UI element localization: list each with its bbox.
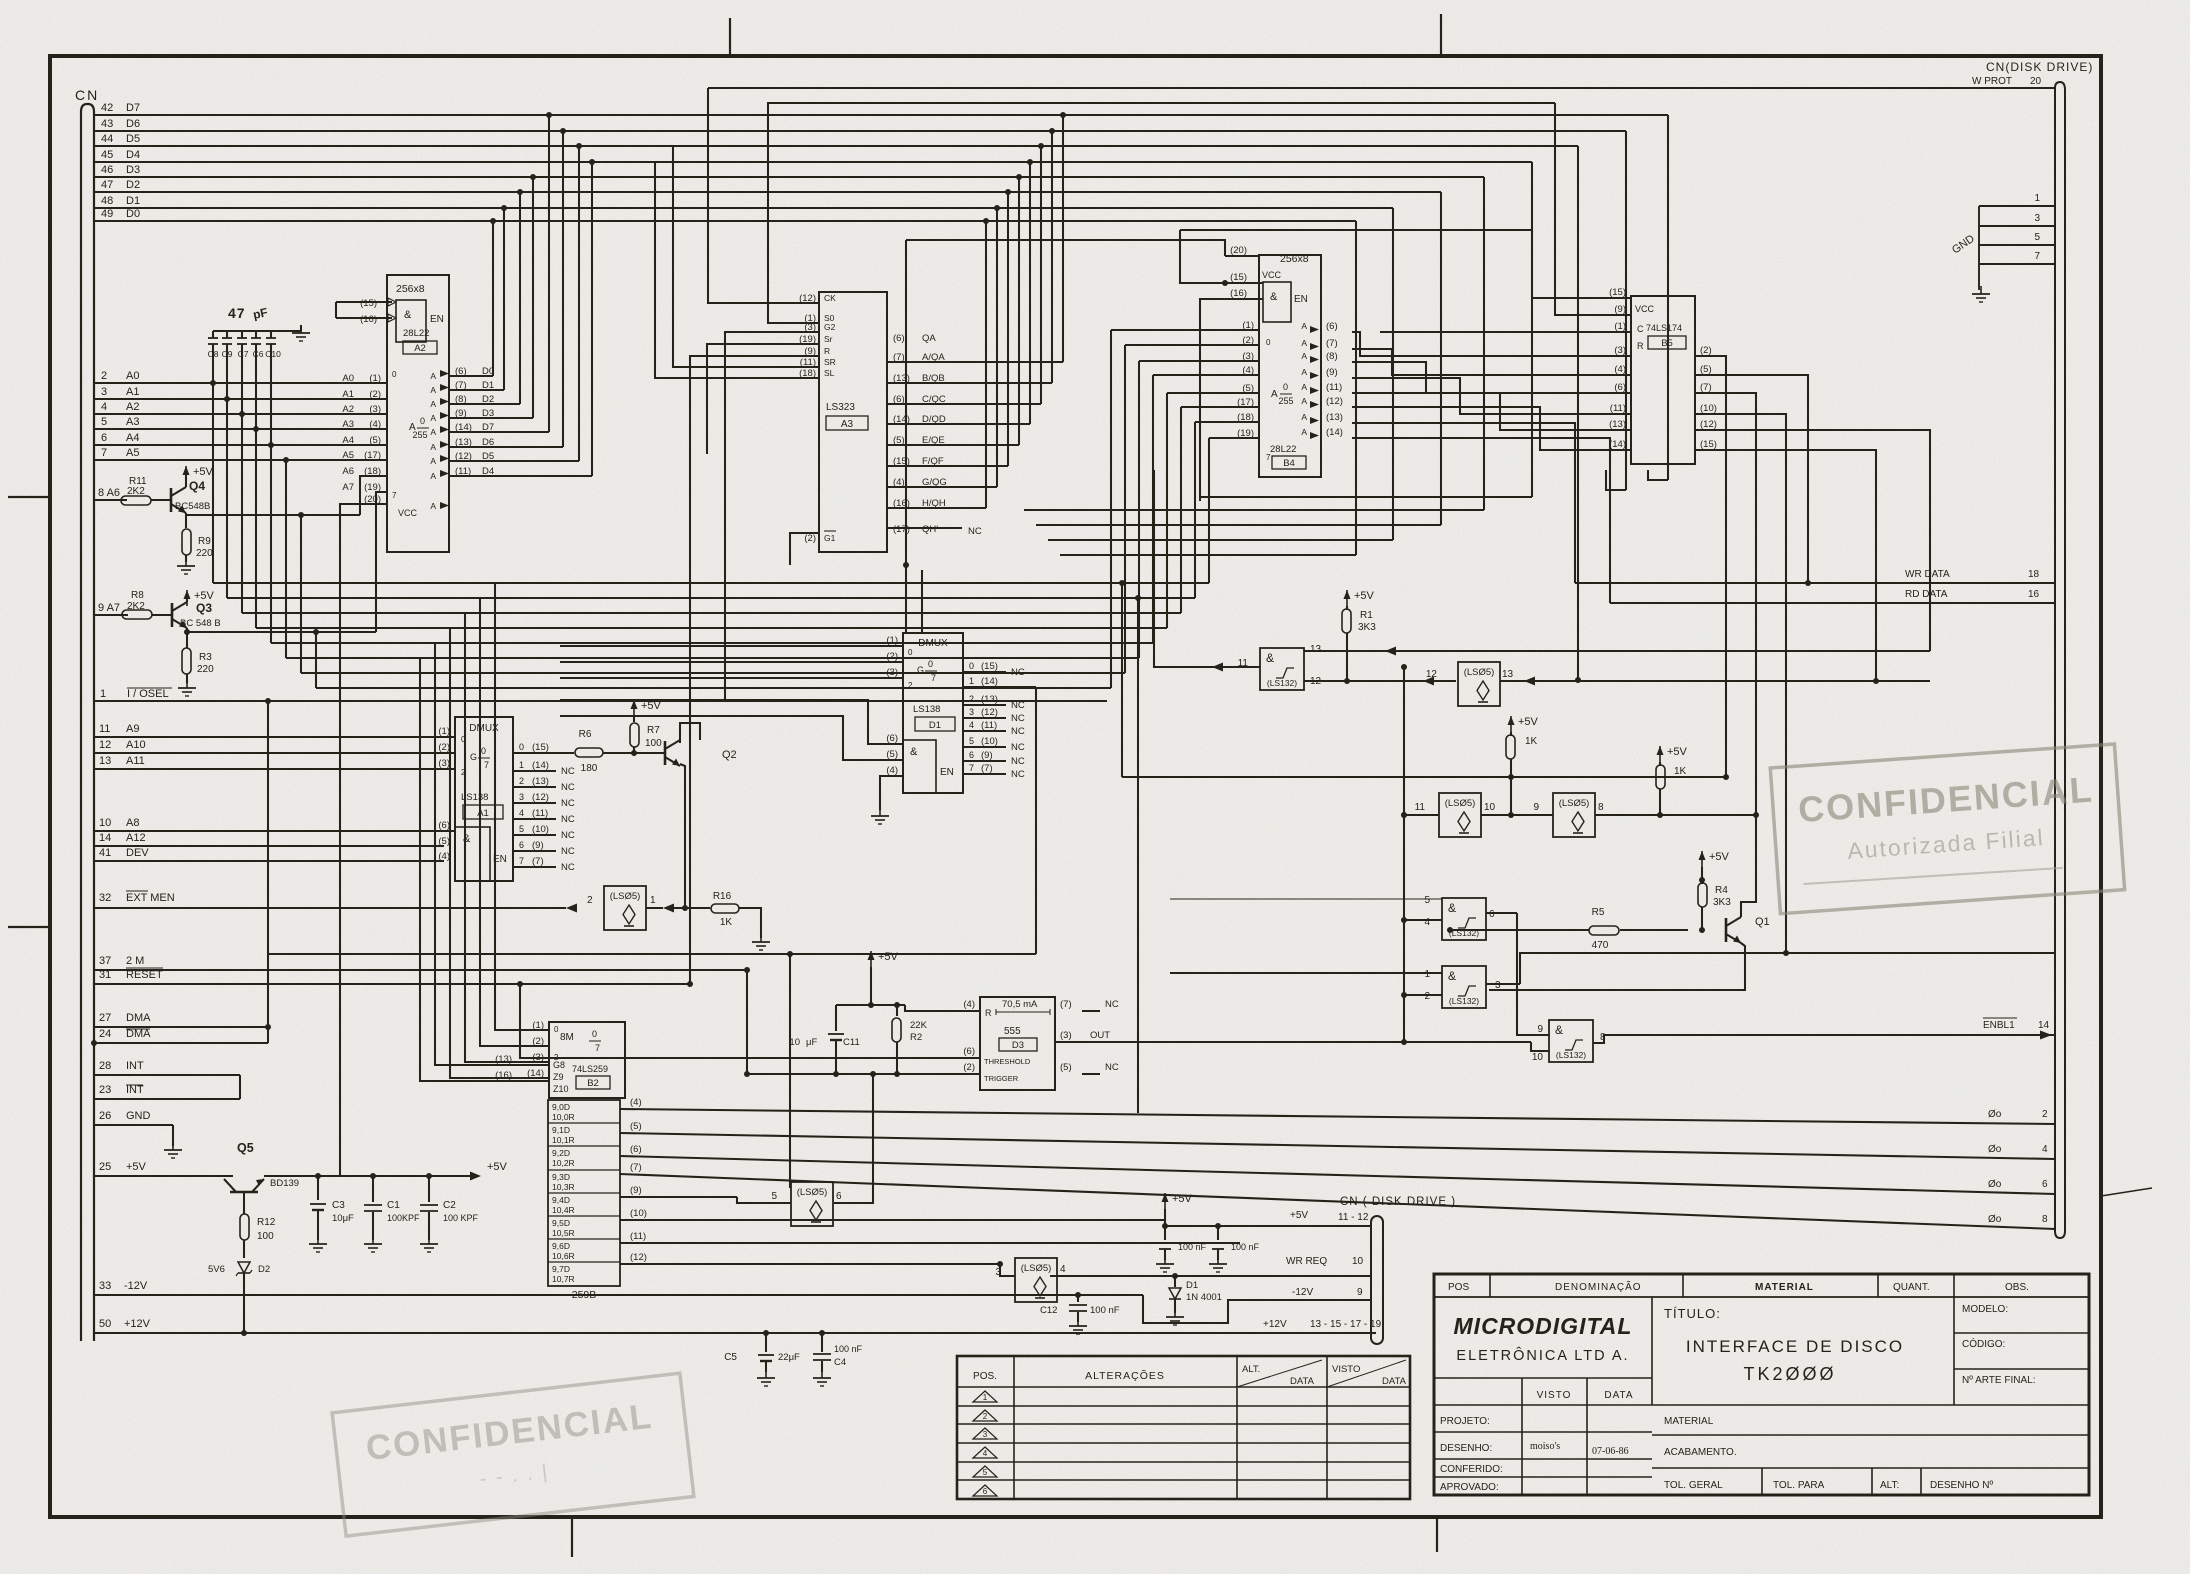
svg-text:255: 255 (412, 430, 427, 440)
IC U-D1b LS138 decoder DMUX (phase) (903, 633, 963, 793)
svg-text:D1: D1 (1186, 1280, 1198, 1291)
svg-text:LS323: LS323 (826, 402, 855, 413)
svg-text:1: 1 (519, 760, 524, 770)
svg-text:CONFERIDO:: CONFERIDO: (1440, 1464, 1503, 1475)
zener D2 5V6 (208, 1262, 270, 1333)
svg-text:(LSØ5): (LSØ5) (797, 1187, 828, 1198)
svg-text:+5V: +5V (1290, 1210, 1308, 1221)
svg-text:(4): (4) (1242, 365, 1254, 376)
capacitor C5 22uF (724, 1330, 800, 1372)
NAND LS132 gate d ENBL1 (1532, 1018, 2055, 1063)
resistor R16 1K to ground (685, 891, 761, 938)
wire buffered address rows staircase to nest (213, 583, 1209, 688)
svg-text:A: A (430, 442, 436, 452)
svg-text:MATERIAL: MATERIAL (1664, 1416, 1714, 1427)
transistor Q5 BD139 (224, 1141, 299, 1192)
svg-text:(6): (6) (963, 1046, 975, 1057)
svg-text:(9): (9) (455, 408, 467, 419)
svg-text:(1): (1) (1242, 320, 1254, 331)
svg-text:PROJETO:: PROJETO: (1440, 1416, 1490, 1427)
svg-text:100: 100 (645, 738, 662, 749)
svg-text:(4): (4) (369, 419, 381, 430)
inverter LS05 on EXT MEN (566, 886, 685, 930)
transistor Q1 (1489, 815, 1770, 990)
svg-text:14: 14 (2038, 1020, 2050, 1031)
svg-text:16: 16 (2028, 589, 2040, 600)
svg-text:(6): (6) (630, 1144, 642, 1155)
wire row 33 -12V (94, 1280, 1143, 1295)
pull-up 1K with +5V (right) (1656, 746, 1688, 818)
svg-text:2: 2 (101, 370, 107, 382)
svg-text:(10): (10) (1700, 403, 1717, 414)
svg-text:A9: A9 (126, 723, 139, 735)
svg-text:+12V: +12V (124, 1318, 151, 1330)
svg-text:(14): (14) (532, 760, 549, 771)
svg-text:MODELO:: MODELO: (1962, 1304, 2008, 1315)
+5V arrow above Q1 (1699, 851, 1730, 883)
wire LS132a pin13 line (1304, 647, 1930, 656)
ground below C4 (813, 1370, 831, 1386)
svg-text:(11): (11) (532, 808, 548, 819)
svg-text:(10): (10) (532, 824, 549, 835)
svg-text:+5V: +5V (1709, 851, 1730, 863)
svg-text:2: 2 (969, 694, 974, 704)
wire rows A8 A12 DEV to U-A1 enable (94, 817, 455, 861)
ground below D1 (1166, 1309, 1184, 1325)
svg-text:100 nF: 100 nF (1178, 1242, 1207, 1252)
svg-text:(LSØ5): (LSØ5) (610, 891, 641, 902)
svg-text:3K3: 3K3 (1358, 622, 1376, 633)
svg-text:(9): (9) (630, 1185, 642, 1196)
svg-text:Nº ARTE FINAL:: Nº ARTE FINAL: (1962, 1375, 2036, 1386)
svg-text:(LSØ5): (LSØ5) (1559, 798, 1590, 809)
svg-text:5: 5 (101, 416, 107, 428)
wire nest U-B4 outputs to U-B5 inputs (1352, 332, 1631, 603)
IC U-A2 28L22 PROM 256x8 (387, 275, 449, 552)
capacitor C4 100nF (813, 1330, 863, 1372)
svg-text:10,5R: 10,5R (552, 1228, 575, 1238)
svg-text:07-06-86: 07-06-86 (1592, 1446, 1629, 1457)
wire rows 28/23 INT (94, 1060, 240, 1099)
resistor R4 3K3 (1698, 880, 1731, 933)
svg-text:(13): (13) (1326, 412, 1343, 423)
svg-text:1: 1 (1424, 969, 1430, 980)
svg-text:1K: 1K (1525, 736, 1538, 747)
svg-text:50: 50 (99, 1318, 111, 1330)
svg-text:(LS132): (LS132) (1267, 678, 1297, 688)
svg-text:41: 41 (99, 847, 111, 859)
wire long verticals center bundle (903, 240, 1141, 1113)
svg-text:11 - 12: 11 - 12 (1338, 1212, 1369, 1223)
svg-text:10,7R: 10,7R (552, 1274, 575, 1284)
svg-text:RESET: RESET (126, 969, 163, 981)
svg-text:6: 6 (836, 1191, 842, 1202)
svg-text:13: 13 (1310, 644, 1322, 655)
svg-text:+5V: +5V (126, 1161, 147, 1173)
svg-text:CN(DISK DRIVE): CN(DISK DRIVE) (1986, 60, 2093, 74)
svg-text:R2: R2 (910, 1032, 922, 1043)
resistor R3 220 (182, 629, 214, 683)
svg-text:(19): (19) (1237, 428, 1254, 439)
svg-text:9,3D: 9,3D (552, 1172, 570, 1182)
ground below C2 (420, 1236, 438, 1252)
resistor R12 100 (240, 1192, 276, 1258)
svg-text:A: A (430, 501, 436, 511)
svg-text:9: 9 (1537, 1024, 1543, 1035)
svg-text:A: A (1301, 351, 1307, 361)
svg-text:Øo: Øo (1988, 1109, 2002, 1120)
alteracoes revision table (957, 1356, 1410, 1499)
wire U-B5 VCC R C feeds (1180, 103, 1600, 332)
svg-text:D0: D0 (126, 208, 140, 220)
svg-text:TRIGGER: TRIGGER (984, 1074, 1019, 1083)
svg-text:(14): (14) (1609, 439, 1626, 450)
svg-text:Q2: Q2 (722, 749, 737, 761)
inverter LS05 9-8 (1533, 793, 1660, 837)
svg-text:1K: 1K (720, 917, 733, 928)
capacitor C12 100nF (1040, 1292, 1120, 1322)
svg-text:(14): (14) (981, 676, 998, 687)
svg-text:+5V: +5V (1172, 1193, 1193, 1205)
svg-text:(LSØ5): (LSØ5) (1464, 667, 1495, 678)
svg-text:A: A (430, 471, 436, 481)
svg-text:Øo: Øo (1988, 1214, 2002, 1225)
capacitor bank C8 C9 C7 C6 C10 47pF (208, 305, 301, 445)
resistor R1 3K3 with +5V (1342, 590, 1376, 684)
svg-text:9,1D: 9,1D (552, 1125, 570, 1135)
svg-text:C10: C10 (265, 349, 281, 359)
wire long vertical from I/OSEL (265, 698, 271, 1030)
svg-text:2: 2 (519, 776, 524, 786)
svg-text:INT: INT (126, 1084, 144, 1096)
svg-text:1: 1 (983, 1393, 988, 1402)
svg-text:220: 220 (197, 664, 214, 675)
svg-text:33: 33 (99, 1280, 111, 1292)
svg-text:(11): (11) (630, 1231, 646, 1242)
svg-text:R1: R1 (1360, 610, 1373, 621)
svg-text:A: A (430, 399, 436, 409)
svg-text:+5V: +5V (878, 951, 899, 963)
svg-text:7: 7 (392, 491, 397, 500)
svg-text:+5V: +5V (641, 700, 662, 712)
svg-text:28L22: 28L22 (403, 328, 429, 339)
svg-text:-12V: -12V (124, 1280, 148, 1292)
svg-text:(5): (5) (1242, 383, 1254, 394)
wire Q4 emitter to A6 buffer line (186, 476, 387, 515)
svg-text:9: 9 (1357, 1287, 1363, 1298)
svg-text:BC548B: BC548B (175, 501, 210, 512)
svg-text:D7: D7 (126, 102, 140, 114)
svg-text:DATA: DATA (1382, 1376, 1407, 1387)
svg-text:(6): (6) (455, 366, 467, 377)
ground symbol row26 (164, 1142, 182, 1158)
wire 1K junction drop (1510, 777, 1512, 815)
svg-text:NC: NC (1011, 667, 1025, 678)
wire data bus rows D7-D0 from CN (94, 102, 1668, 221)
transistor Q3 BC548B (172, 601, 221, 629)
svg-text:DMA: DMA (126, 1028, 151, 1040)
svg-text:A5: A5 (126, 447, 139, 459)
svg-text:A: A (430, 385, 436, 395)
svg-text:10: 10 (1484, 802, 1496, 813)
svg-text:(5): (5) (438, 836, 450, 847)
NAND LS132 gate a (1238, 644, 1322, 690)
svg-text:100 nF: 100 nF (834, 1344, 863, 1354)
svg-text:C5: C5 (724, 1352, 737, 1363)
inverter LS05 11-10 (1401, 793, 1553, 837)
svg-text:+5V: +5V (487, 1161, 508, 1173)
svg-text:G: G (917, 665, 924, 675)
svg-text:TÍTULO:: TÍTULO: (1664, 1306, 1721, 1321)
svg-text:11: 11 (1415, 802, 1426, 813)
svg-text:(12): (12) (455, 451, 472, 462)
ground below cap a (1156, 1256, 1174, 1272)
svg-text:(1): (1) (886, 635, 898, 646)
svg-text:C3: C3 (332, 1200, 345, 1211)
svg-text:R16: R16 (713, 891, 732, 902)
svg-text:(16): (16) (1230, 288, 1247, 299)
svg-text:(15): (15) (981, 661, 998, 672)
svg-text:(3): (3) (1242, 351, 1254, 362)
svg-text:NC: NC (968, 526, 982, 537)
GND block on disk connector pins 1 3 5 7 (1950, 193, 2055, 290)
svg-text:THRESHOLD: THRESHOLD (984, 1057, 1031, 1066)
IC U-D3 555 timer (980, 997, 1055, 1090)
svg-text:(10): (10) (630, 1208, 647, 1219)
connector CN DISK DRIVE (bottom) (1340, 1196, 1456, 1344)
svg-text:D7: D7 (482, 422, 494, 433)
svg-text:3: 3 (983, 1430, 988, 1439)
wire feed LS05 3 input (997, 1261, 1015, 1276)
svg-text:A2: A2 (414, 343, 426, 354)
svg-text:0: 0 (592, 1029, 597, 1039)
svg-text:0: 0 (1283, 382, 1288, 392)
svg-text:(1): (1) (438, 726, 450, 737)
svg-text:(5): (5) (1060, 1062, 1072, 1073)
svg-text:9,7D: 9,7D (552, 1264, 570, 1274)
svg-text:4: 4 (2042, 1144, 2048, 1155)
connector CN DISK DRIVE (top right) (1986, 60, 2093, 1238)
svg-text:(1): (1) (369, 373, 381, 384)
svg-text:Øo: Øo (1988, 1144, 2002, 1155)
svg-text:(16): (16) (495, 1070, 512, 1081)
wire row 25 +5V to Q5 (94, 1161, 233, 1176)
svg-text:(13): (13) (455, 437, 472, 448)
svg-text:Øo: Øo (1988, 1179, 2002, 1190)
svg-text:Q4: Q4 (189, 479, 205, 493)
svg-text:(2): (2) (369, 389, 381, 400)
resistor R5 470 (1447, 907, 1688, 951)
svg-text:A: A (430, 456, 436, 466)
svg-text:(15): (15) (360, 298, 377, 309)
svg-text:9,0D: 9,0D (552, 1102, 570, 1112)
svg-text:A10: A10 (126, 739, 146, 751)
svg-text:pF: pF (252, 305, 269, 322)
svg-text:(4): (4) (963, 999, 975, 1010)
svg-text:3: 3 (1495, 980, 1501, 991)
svg-text:(18): (18) (1237, 412, 1254, 423)
svg-text:1K: 1K (1674, 766, 1687, 777)
wire Q2 emitter down to EXT MEN node (680, 764, 688, 911)
svg-text:NC: NC (1105, 1062, 1119, 1073)
U-B4 output pins to nest (1301, 321, 1343, 439)
svg-text:4: 4 (969, 720, 974, 730)
svg-text:DEV: DEV (126, 847, 149, 859)
svg-text:(13): (13) (495, 1054, 512, 1065)
svg-text:A3: A3 (342, 419, 354, 430)
svg-text:A4: A4 (126, 432, 139, 444)
svg-text:DATA: DATA (1290, 1376, 1315, 1387)
svg-text:7: 7 (969, 763, 974, 773)
connector CN (left edge card connector) (75, 87, 99, 1341)
svg-text:A11: A11 (126, 755, 145, 767)
svg-text:A12: A12 (126, 832, 146, 844)
svg-text:ALT:: ALT: (1880, 1480, 1899, 1491)
svg-text:QA: QA (922, 333, 936, 344)
svg-text:D5: D5 (482, 451, 494, 462)
svg-text:Q5: Q5 (237, 1141, 254, 1155)
svg-text:Q3: Q3 (196, 601, 212, 615)
svg-text:1: 1 (650, 895, 656, 906)
svg-text:(8): (8) (455, 394, 467, 405)
svg-text:6: 6 (1489, 909, 1495, 920)
svg-text:(9): (9) (1326, 367, 1338, 378)
svg-text:NC: NC (561, 830, 575, 841)
ground below GND block (1972, 286, 1990, 302)
wire long horizontal mid-left (268, 951, 1036, 957)
svg-text:3: 3 (101, 386, 107, 398)
svg-text:A: A (430, 427, 436, 437)
svg-text:EN: EN (940, 767, 954, 778)
svg-text:A: A (1301, 427, 1307, 437)
svg-text:D4: D4 (482, 466, 494, 477)
svg-text:47: 47 (101, 179, 113, 191)
svg-text:MICRODIGITAL: MICRODIGITAL (1454, 1313, 1633, 1339)
svg-text:R: R (985, 1008, 992, 1018)
wire nest verticals up to U-B4 address pins (1111, 330, 1259, 688)
U-A2 output pins to data bus verticals (430, 112, 595, 511)
wire row 50 +12V (94, 1318, 1376, 1336)
svg-text:(6): (6) (1614, 382, 1626, 393)
svg-text:2: 2 (983, 1412, 988, 1421)
svg-text:24: 24 (99, 1028, 111, 1040)
U-B2 input labels (495, 1020, 549, 1081)
svg-text:(12): (12) (1700, 419, 1717, 430)
IC U-B2 74LS259 addressable latch (549, 1022, 625, 1098)
svg-text:&: & (910, 746, 918, 758)
svg-text:(12): (12) (630, 1252, 647, 1263)
svg-text:4: 4 (1060, 1264, 1066, 1275)
svg-text:2 M: 2 M (126, 955, 144, 967)
svg-text:CN: CN (75, 87, 99, 103)
svg-text:4: 4 (1424, 917, 1430, 928)
svg-text:(15): (15) (1609, 287, 1626, 298)
svg-text:A3: A3 (126, 416, 139, 428)
svg-text:APROVADO:: APROVADO: (1440, 1482, 1499, 1493)
ground below U-D1b enable (871, 808, 889, 824)
wire TRIGGER row (744, 967, 980, 1077)
svg-text:23: 23 (99, 1084, 111, 1096)
svg-text:3: 3 (2034, 213, 2040, 224)
svg-text:9,5D: 9,5D (552, 1218, 570, 1228)
svg-text:0: 0 (392, 370, 397, 379)
wire data bus right-end drops (1024, 115, 1668, 683)
svg-text:CÓDIGO:: CÓDIGO: (1962, 1337, 2005, 1350)
svg-text:(2): (2) (963, 1062, 975, 1073)
svg-text:1: 1 (100, 688, 106, 700)
svg-text:D5: D5 (126, 133, 140, 145)
svg-text:NC: NC (1011, 769, 1025, 780)
svg-text:TOL. GERAL: TOL. GERAL (1664, 1480, 1723, 1491)
svg-text:9 A7: 9 A7 (98, 602, 120, 614)
svg-text:CK: CK (824, 293, 836, 303)
wire row 1 I/OSEL (94, 688, 1107, 701)
svg-text:OUT: OUT (1090, 1030, 1110, 1041)
svg-text:(6): (6) (1326, 321, 1338, 332)
wire U-A2 VCC stub (340, 504, 361, 1176)
IC U-A1 LS138 decoder DMUX (455, 717, 513, 881)
svg-text:8 A6: 8 A6 (98, 487, 120, 499)
wire row 8 A6 to R11 (94, 487, 127, 500)
svg-text:256x8: 256x8 (396, 283, 425, 295)
ground below R9 (177, 558, 195, 574)
svg-text:POS.: POS. (973, 1371, 997, 1382)
svg-text:5: 5 (969, 736, 974, 746)
svg-text:A3: A3 (841, 419, 854, 430)
svg-text:C2: C2 (443, 1200, 456, 1211)
ground below C1 (364, 1236, 382, 1252)
svg-text:&: & (404, 309, 412, 321)
svg-text:D1: D1 (126, 195, 140, 207)
wire B2 out10 stub to +5V node (1160, 1220, 1165, 1226)
svg-text:27: 27 (99, 1012, 111, 1024)
svg-text:28: 28 (99, 1060, 111, 1072)
svg-text:R4: R4 (1715, 885, 1728, 896)
svg-text:0: 0 (481, 746, 486, 756)
svg-text:D3: D3 (126, 164, 140, 176)
wire rows A9-A11 to U-A1 select inputs (94, 723, 455, 769)
svg-text:100 nF: 100 nF (1231, 1242, 1260, 1252)
svg-text:NC: NC (561, 814, 575, 825)
wire LS05 8 output to +5V node of Q1 (1660, 814, 1756, 816)
svg-text:220: 220 (196, 548, 213, 559)
svg-text:70,5 mA: 70,5 mA (1002, 999, 1038, 1010)
svg-text:D4: D4 (126, 149, 140, 161)
wire address tap verticals to buffer staircase (210, 380, 319, 688)
wire Q3 emitter to A7 buffer line (187, 492, 387, 632)
svg-text:22μF: 22μF (778, 1352, 800, 1363)
svg-text:(15): (15) (1230, 272, 1247, 283)
svg-text:+5V: +5V (1518, 716, 1539, 728)
svg-text:(12): (12) (1326, 396, 1343, 407)
svg-text:TK2ØØØ: TK2ØØØ (1743, 1364, 1836, 1384)
U-B5 pin labels (1600, 287, 1717, 450)
svg-text:Sr: Sr (824, 334, 833, 344)
inverter LS05 12-13 (write gate) (1458, 662, 1930, 706)
svg-text:9,4D: 9,4D (552, 1195, 570, 1205)
svg-text:(17): (17) (364, 450, 381, 461)
+5V arrow at Q3 collector (184, 590, 215, 606)
capacitor 100nF (b) (1212, 1226, 1260, 1260)
svg-text:(LS132): (LS132) (1449, 928, 1479, 938)
svg-text:6: 6 (2042, 1179, 2048, 1190)
capacitor 100nF (a) (1159, 1226, 1207, 1260)
svg-text:(5): (5) (886, 749, 898, 760)
svg-text:DMUX: DMUX (918, 638, 948, 649)
svg-text:5: 5 (519, 824, 524, 834)
svg-text:C11: C11 (843, 1037, 860, 1048)
svg-text:10,2R: 10,2R (552, 1158, 575, 1168)
